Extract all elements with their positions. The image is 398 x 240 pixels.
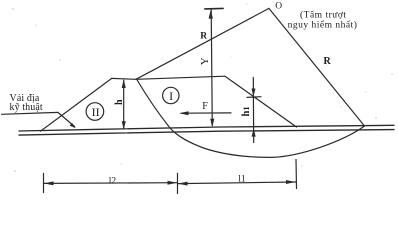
radius line O to ground exit point <box>269 8 365 126</box>
svg-text:l2: l2 <box>109 177 117 187</box>
down arrowhead at ground <box>210 119 214 128</box>
h1 dimension line <box>252 78 254 143</box>
svg-text:(Tâm trượt: (Tâm trượt <box>300 10 347 21</box>
geotextile lower base line <box>19 130 394 136</box>
svg-text:Y: Y <box>199 57 211 65</box>
dimension tick right <box>295 160 298 189</box>
l1 right arrowhead <box>286 180 296 184</box>
slip circle arc <box>137 79 365 157</box>
svg-text:F: F <box>202 101 208 112</box>
geotextile leader line <box>2 112 75 126</box>
svg-text:h: h <box>114 99 125 105</box>
up arrowhead at T-bar <box>209 10 213 19</box>
l2 dimension line <box>44 182 177 185</box>
svg-text:R: R <box>200 32 207 42</box>
top line from crest junction to right slope shoulder <box>136 76 225 79</box>
h dimension line <box>123 80 125 129</box>
dimension tick left (l2) <box>43 174 45 193</box>
embankment crest <box>112 77 136 80</box>
l1 left arrowhead <box>178 182 188 186</box>
svg-text:nguy hiểm nhất): nguy hiểm nhất) <box>288 20 358 31</box>
circled zone label I <box>163 87 179 103</box>
h top arrowhead <box>122 79 126 88</box>
F force arrow pointing left <box>182 112 232 114</box>
svg-text:R: R <box>324 56 332 67</box>
h bottom arrowhead <box>122 121 126 129</box>
h1 top arrowhead (points down to slope tick) <box>252 89 256 97</box>
svg-text:O: O <box>275 1 282 11</box>
geotextile upper base line <box>19 125 394 131</box>
faint scan speckles <box>12 3 393 172</box>
dimension tick middle <box>177 173 179 193</box>
svg-text:kỹ thuật: kỹ thuật <box>10 102 43 113</box>
svg-text:l1: l1 <box>238 174 246 184</box>
leader arrowhead <box>70 123 76 128</box>
tick on slope for h1 <box>247 96 261 99</box>
l1 dimension line <box>178 182 296 184</box>
F arrowhead <box>179 111 189 115</box>
embankment right slope <box>225 76 297 127</box>
vertical dimension line Y (center height) <box>211 10 212 126</box>
svg-text:II: II <box>92 105 100 119</box>
svg-text:h1: h1 <box>241 106 252 116</box>
l2 right arrowhead <box>168 181 178 185</box>
radius line O to crest junction <box>136 8 269 79</box>
h1 bottom arrowhead (points up to base line) <box>252 129 256 137</box>
embankment left slope <box>41 78 112 131</box>
circled zone label II <box>86 103 104 121</box>
l2 left arrowhead <box>44 181 54 185</box>
svg-text:I: I <box>169 89 173 103</box>
T-bar at top of vertical dimension <box>205 7 223 10</box>
